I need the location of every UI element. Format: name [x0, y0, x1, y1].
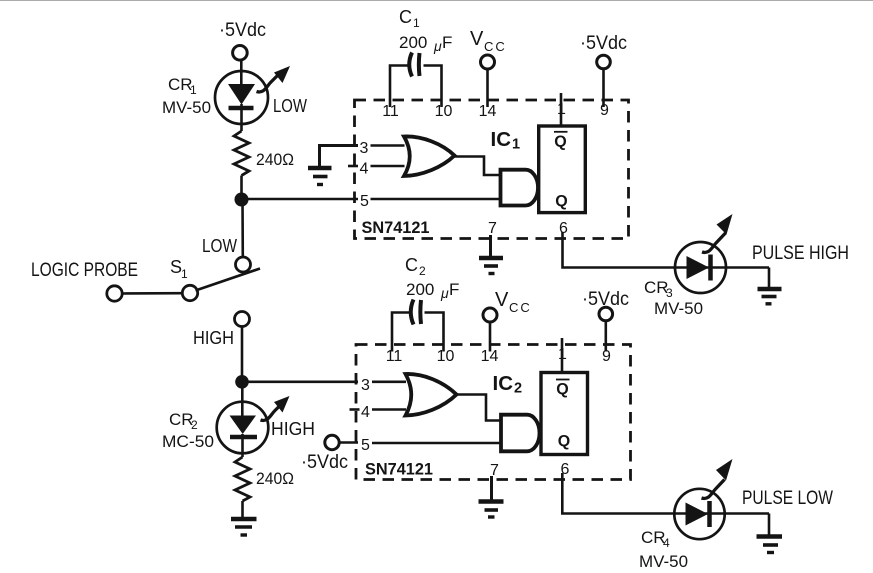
node A junction dot	[235, 193, 249, 207]
LED CR3 MV-50	[675, 242, 726, 293]
pin 11 label IC1	[382, 103, 399, 120]
ground (CR4)	[757, 537, 783, 553]
svg-text:11: 11	[382, 103, 399, 120]
svg-text:μ: μ	[433, 38, 442, 54]
svg-text:9: 9	[602, 348, 611, 365]
CR1 light arrow	[257, 66, 291, 92]
label MV-50 (CR4)	[639, 552, 688, 571]
svg-text:240Ω: 240Ω	[256, 150, 294, 169]
capacitor C2	[392, 300, 444, 352]
LED CR4 MV-50	[674, 489, 724, 539]
svg-text:C: C	[399, 7, 412, 27]
svg-text:μ: μ	[440, 285, 449, 301]
wire pole to probe terminal	[122, 292, 182, 295]
wire Vcc to pin 14	[486, 69, 489, 107]
label 200uF (C2)	[406, 280, 459, 301]
svg-text:9: 9	[600, 102, 609, 119]
svg-text:1: 1	[181, 267, 188, 281]
wire OR output to AND input IC1	[454, 157, 501, 176]
label LOW (switch)	[202, 236, 237, 256]
svg-text:CR: CR	[168, 75, 193, 94]
wire OR output to AND input IC2	[456, 395, 503, 421]
svg-text:LOW: LOW	[273, 96, 307, 116]
wire node B to CR2	[241, 382, 244, 417]
svg-text:7: 7	[488, 220, 497, 237]
terminal +5Vdc (IC2 pin5)	[325, 435, 339, 449]
label CR1	[168, 75, 197, 97]
svg-text:PULSE LOW: PULSE LOW	[742, 488, 833, 509]
wire resistor R2 to ground	[241, 501, 244, 519]
svg-text:LOW: LOW	[202, 236, 237, 256]
wire AND output to Q block IC1	[537, 187, 540, 190]
wire node A to IC1 pin5	[242, 198, 359, 201]
node +5Vdc (IC1 pin9) label	[580, 33, 627, 54]
overbar Qbar IC1	[554, 131, 568, 133]
label MV-50 (CR3)	[654, 299, 703, 318]
pin 7 label IC2	[490, 462, 499, 479]
svg-text:4: 4	[361, 404, 370, 421]
OR gate IC1	[404, 136, 455, 176]
wire CR3 to ground	[768, 268, 771, 290]
pin 14 label IC1	[479, 103, 497, 120]
wire pin4 to OR gate IC2	[372, 408, 406, 411]
label Q IC2	[558, 433, 570, 450]
ground (IC1 pin3)	[308, 168, 332, 185]
svg-text:F: F	[442, 33, 452, 52]
label HIGH (CR2)	[271, 419, 315, 439]
pin 3 label IC1	[360, 140, 369, 157]
LED CR1 MV-50	[215, 71, 268, 131]
capacitor C2 label	[405, 255, 426, 278]
pin 6 label IC1	[559, 220, 568, 237]
pin 7 label IC1	[488, 220, 497, 237]
wire IC2 pin6 to CR4	[562, 473, 769, 514]
switch S1 arm	[196, 269, 261, 291]
terminal +5Vdc IC1 pin9	[597, 55, 611, 69]
label LOGIC PROBE	[31, 260, 138, 281]
terminal Vcc IC2	[483, 308, 497, 322]
svg-text:2: 2	[514, 381, 522, 397]
wire Vcc to pin 14 IC2	[489, 322, 492, 352]
label CR3	[644, 278, 673, 300]
svg-text:1: 1	[557, 101, 566, 118]
svg-text:SN74121: SN74121	[365, 461, 433, 479]
OR gate IC2	[406, 374, 457, 416]
svg-text:200: 200	[406, 280, 434, 299]
svg-text:1: 1	[512, 137, 520, 153]
svg-text:10: 10	[437, 348, 455, 365]
label 240ohm (top)	[256, 150, 294, 169]
svg-text:V: V	[470, 28, 484, 50]
LED CR2 MC-50	[217, 402, 269, 457]
svg-text:MC-50: MC-50	[162, 432, 214, 451]
pin 14 label IC2	[481, 348, 499, 365]
wire pin4 to OR gate IC1	[371, 165, 405, 168]
terminal Vcc IC1	[481, 55, 495, 69]
svg-text:V: V	[495, 289, 509, 311]
pin 9 label IC1	[600, 102, 609, 119]
label MV-50	[162, 98, 211, 117]
AND gate IC2	[501, 415, 540, 452]
svg-text:SN74121: SN74121	[362, 219, 430, 237]
node +5Vdc (top left) label	[219, 20, 266, 41]
svg-text:3: 3	[361, 377, 370, 394]
pin 4 label IC2	[361, 404, 370, 421]
svg-text:CC: CC	[509, 300, 532, 315]
svg-text:3: 3	[360, 140, 369, 157]
output block IC1 (Q / Qbar)	[539, 126, 586, 213]
svg-text:PULSE HIGH: PULSE HIGH	[752, 243, 849, 264]
pin 5 label IC2	[361, 437, 370, 454]
wire +5Vdc terminal to pin5 IC2	[339, 441, 358, 444]
svg-text:CC: CC	[484, 39, 507, 54]
node Vcc (IC1 pin14)	[470, 28, 507, 54]
svg-text:4: 4	[663, 536, 670, 550]
svg-text:Q: Q	[554, 134, 566, 151]
svg-text:CR: CR	[169, 410, 194, 429]
pin 4 tick IC2	[350, 408, 360, 411]
svg-text:10: 10	[435, 103, 453, 120]
wire terminal to CR1	[240, 60, 243, 84]
label PULSE LOW	[742, 488, 833, 509]
svg-text:MV-50: MV-50	[654, 299, 703, 318]
label IC1	[491, 128, 521, 153]
switch S1 LOW contact	[236, 257, 251, 272]
switch S1 HIGH contact	[235, 312, 250, 327]
svg-text:HIGH: HIGH	[193, 328, 234, 348]
wire pin3 to OR gate IC1	[371, 144, 405, 147]
svg-text:·5Vdc: ·5Vdc	[580, 33, 627, 54]
terminal probe input	[107, 286, 122, 301]
label IC2	[493, 372, 523, 397]
capacitor C1 label	[399, 7, 420, 30]
terminal +5Vdc IC2 pin9	[599, 307, 613, 321]
svg-text:2: 2	[191, 418, 198, 432]
pin 10 label IC1	[435, 103, 453, 120]
label SN74121 (IC1)	[362, 219, 430, 237]
svg-text:200: 200	[399, 33, 427, 52]
capacitor C1	[390, 53, 442, 108]
pin 1 label IC2	[558, 346, 567, 363]
wire IC1 pin6 to CR3	[563, 232, 770, 268]
svg-text:·5Vdc: ·5Vdc	[301, 452, 348, 473]
wire resistor to node A	[240, 176, 243, 200]
label 200uF (C1)	[399, 33, 452, 54]
wire ground to IC1 pin3	[320, 146, 359, 168]
svg-text:240Ω: 240Ω	[256, 469, 294, 488]
resistor R1 240ohm	[234, 131, 249, 176]
ground (IC1 pin7)	[479, 258, 503, 274]
label Qbar IC1	[554, 134, 566, 151]
label CR2	[169, 410, 198, 432]
ground (CR3)	[758, 289, 782, 304]
node B junction dot	[235, 375, 249, 389]
wire +5Vdc to pin 9	[602, 69, 605, 107]
svg-text:HIGH: HIGH	[271, 419, 315, 439]
op-amp block IC2 dashed box	[356, 345, 631, 480]
svg-text:MV-50: MV-50	[162, 98, 211, 117]
pin 11 label IC2	[386, 348, 403, 365]
svg-text:Q: Q	[558, 433, 570, 450]
svg-text:2: 2	[419, 264, 426, 278]
svg-text:1: 1	[190, 83, 197, 97]
svg-text:5: 5	[361, 437, 370, 454]
svg-text:F: F	[449, 280, 459, 299]
pin 1 label IC1	[557, 101, 566, 118]
overbar Qbar IC2	[556, 379, 570, 381]
pin 1 tick IC2	[561, 338, 564, 373]
svg-text:14: 14	[481, 348, 499, 365]
terminal +5Vdc top left	[233, 46, 248, 61]
pin 5 label IC1	[360, 193, 369, 210]
pin 4 tick IC1	[348, 165, 358, 168]
label S1	[170, 257, 188, 281]
resistor R2 240ohm	[235, 457, 250, 501]
wire pin3 to OR gate IC2	[372, 380, 406, 383]
svg-text:C: C	[405, 255, 418, 275]
svg-text:IC: IC	[491, 128, 512, 151]
label Qbar IC2	[556, 381, 568, 398]
label MC-50	[162, 432, 214, 451]
svg-text:11: 11	[386, 348, 403, 365]
ground (below R2)	[231, 519, 257, 535]
wire HIGH contact to node B	[241, 327, 244, 383]
label LOW (CR1)	[273, 96, 307, 116]
wire pin5 to AND gate IC1	[371, 198, 502, 201]
svg-text:4: 4	[360, 161, 369, 178]
svg-text:IC: IC	[493, 372, 514, 395]
svg-text:1: 1	[413, 16, 420, 30]
svg-text:LOGIC PROBE: LOGIC PROBE	[31, 260, 138, 281]
wire pin5 to AND gate IC2	[372, 442, 503, 445]
svg-text:·5Vdc: ·5Vdc	[219, 20, 266, 41]
ground (IC2 pin7)	[479, 502, 504, 518]
node Vcc (IC2 pin14)	[495, 289, 532, 315]
label SN74121 (IC2)	[365, 461, 433, 479]
pin 7 stub IC2	[490, 476, 493, 500]
wire node A to switch LOW contact	[241, 200, 244, 258]
svg-text:Q: Q	[555, 193, 567, 210]
CR2 light arrow	[261, 396, 290, 420]
svg-text:CR: CR	[641, 528, 666, 547]
svg-text:14: 14	[479, 103, 497, 120]
svg-text:1: 1	[558, 346, 567, 363]
label HIGH (switch)	[193, 328, 234, 348]
pin 10 label IC2	[437, 348, 455, 365]
pin 7 stub IC1	[489, 235, 492, 257]
svg-text:MV-50: MV-50	[639, 552, 688, 571]
svg-text:Q: Q	[556, 381, 568, 398]
wire AND output to Q block IC2	[539, 432, 542, 435]
op-amp block IC1 dashed box	[355, 100, 629, 239]
CR3 light arrow	[702, 214, 733, 252]
wire +5Vdc to pin 9 IC2	[604, 321, 607, 352]
AND gate IC1	[501, 170, 539, 206]
label 240ohm (bottom)	[256, 469, 294, 488]
output block IC2 (Q / Qbar)	[541, 373, 588, 455]
wire CR4 to ground	[768, 514, 771, 536]
wire node B to IC2 pin3	[242, 380, 358, 383]
label +5Vdc (IC2 pin5)	[301, 452, 348, 473]
label Q IC1	[555, 193, 567, 210]
svg-text:5: 5	[360, 193, 369, 210]
label CR4	[641, 528, 670, 550]
pin 1 tick IC1	[560, 93, 563, 126]
pin 4 label IC1	[360, 161, 369, 178]
node +5Vdc (IC2 pin9) label	[582, 289, 629, 310]
pin 9 label IC2	[602, 348, 611, 365]
pin 3 label IC2	[361, 377, 370, 394]
svg-text:CR: CR	[644, 278, 669, 297]
pin 6 label IC2	[561, 461, 570, 478]
svg-text:3: 3	[666, 286, 673, 300]
switch S1 pole contact	[182, 285, 197, 300]
label PULSE HIGH	[752, 243, 849, 264]
CR4 light arrow	[702, 459, 733, 498]
